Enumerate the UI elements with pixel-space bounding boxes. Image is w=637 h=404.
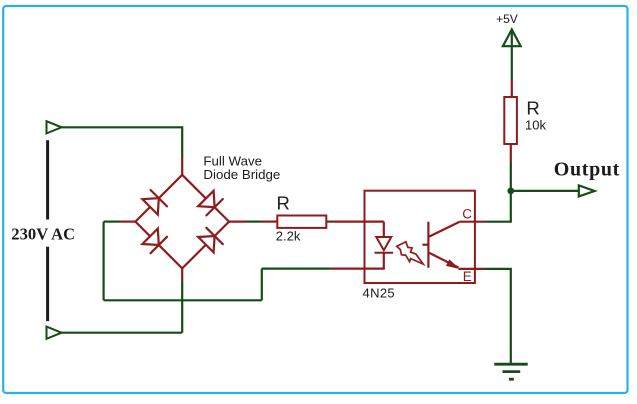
svg-text:Diode Bridge: Diode Bridge [203,167,280,182]
svg-text:R: R [526,97,539,118]
svg-text:R: R [277,192,290,213]
svg-text:Output: Output [554,159,620,181]
svg-text:+5V: +5V [496,12,518,26]
svg-text:E: E [463,269,472,284]
svg-text:4N25: 4N25 [363,285,395,300]
svg-text:230V AC: 230V AC [11,224,75,243]
svg-text:C: C [462,206,472,221]
svg-text:10k: 10k [525,117,546,132]
svg-text:2.2k: 2.2k [276,228,301,243]
svg-text:Full Wave: Full Wave [203,153,262,168]
